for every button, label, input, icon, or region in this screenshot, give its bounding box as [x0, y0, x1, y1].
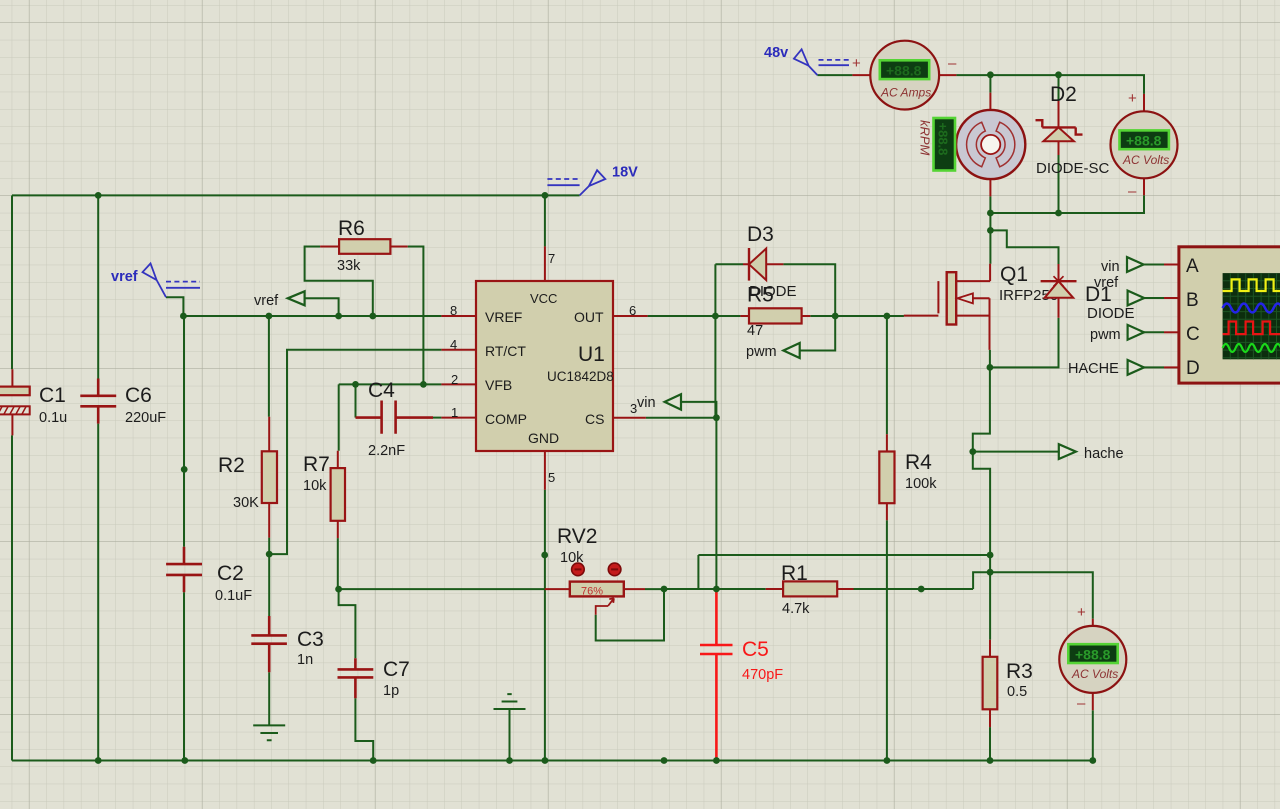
wire Q1 source column with hache jog — [973, 350, 990, 572]
resistor R3 — [983, 640, 1033, 727]
svg-text:R3: R3 — [1006, 660, 1033, 683]
net label vin (scope A) — [1101, 257, 1179, 275]
svg-text:vref: vref — [254, 293, 279, 309]
wire ground symbol stem mid — [509, 709, 511, 761]
svg-text:DIODE-SC: DIODE-SC — [1036, 160, 1110, 177]
svg-text:33k: 33k — [337, 258, 361, 274]
RPM display kRPM — [918, 118, 956, 171]
svg-text:–: – — [1077, 695, 1086, 712]
svg-text:30K: 30K — [233, 495, 259, 511]
wire mid row y555 — [698, 555, 990, 589]
svg-text:C1: C1 — [39, 384, 66, 407]
svg-text:C7: C7 — [383, 658, 410, 681]
wire drain link from motor node — [990, 230, 1058, 264]
ground symbol (under C3) — [253, 725, 285, 740]
svg-text:Q1: Q1 — [1000, 263, 1028, 286]
svg-text:VREF: VREF — [485, 309, 522, 325]
svg-text:0.5: 0.5 — [1007, 684, 1027, 700]
net label vref (scope B) — [1094, 275, 1179, 305]
svg-text:1p: 1p — [383, 683, 399, 699]
svg-text:2: 2 — [451, 372, 458, 387]
svg-text:R4: R4 — [905, 451, 932, 474]
capacitor C2 — [166, 547, 252, 604]
wire voltmeter2 bottom — [1092, 710, 1094, 760]
resistor R2 — [218, 417, 277, 538]
power flag vref — [111, 264, 200, 298]
wire R7 node to C7 — [339, 589, 356, 658]
wire vref rail to pin 8 — [183, 315, 441, 317]
ammeter AC Amps — [852, 41, 957, 110]
svg-text:470pF: 470pF — [742, 667, 783, 683]
wire C4 left riser — [355, 384, 357, 417]
wire RV2 row from R7 node — [339, 588, 545, 590]
svg-text:C6: C6 — [125, 384, 152, 407]
svg-text:+88.8: +88.8 — [1126, 133, 1162, 149]
svg-text:DIODE: DIODE — [749, 283, 797, 300]
svg-text:kRPM: kRPM — [918, 120, 933, 156]
svg-text:100k: 100k — [905, 476, 937, 492]
ground symbol (mid, flipped) — [494, 694, 526, 709]
wire motor bottom row — [990, 195, 1144, 230]
svg-text:COMP: COMP — [485, 411, 527, 427]
svg-text:DIODE: DIODE — [1087, 305, 1135, 322]
svg-text:–: – — [948, 55, 957, 72]
wire RV2 wiper return — [596, 589, 664, 641]
wire CS pin3 row — [646, 417, 717, 419]
wire 18V top rail — [12, 194, 580, 196]
wire gate stub — [887, 315, 904, 317]
svg-text:vref: vref — [111, 269, 138, 285]
svg-text:AC Volts: AC Volts — [1071, 667, 1118, 681]
svg-text:4: 4 — [450, 337, 457, 352]
wire D3 right return — [783, 264, 835, 316]
svg-text:5: 5 — [548, 470, 555, 485]
net label pwm (scope C) — [1090, 325, 1179, 343]
svg-text:hache: hache — [1084, 446, 1124, 462]
wire OUT node down to vin node — [714, 316, 716, 418]
resistor R1 — [766, 562, 854, 617]
svg-text:R6: R6 — [338, 217, 365, 240]
svg-text:47: 47 — [747, 323, 763, 339]
svg-text:18V: 18V — [612, 165, 638, 181]
wire R1 row — [664, 588, 973, 590]
svg-text:2.2nF: 2.2nF — [368, 443, 405, 459]
svg-text:10k: 10k — [303, 478, 327, 494]
capacitor C3 — [251, 616, 324, 672]
wire RT/CT pin4 run to R2/C3 node — [269, 350, 441, 554]
svg-text:C: C — [1186, 324, 1200, 345]
svg-text:R7: R7 — [303, 453, 330, 476]
oscilloscope — [1179, 247, 1280, 383]
wire GND pin5 column — [544, 490, 546, 761]
net label hache (arrow) — [1059, 444, 1124, 462]
svg-text:4.7k: 4.7k — [782, 601, 810, 617]
resistor R6 — [320, 217, 408, 274]
svg-text:0.1u: 0.1u — [39, 410, 67, 426]
svg-text:220uF: 220uF — [125, 410, 166, 426]
svg-text:vin: vin — [637, 395, 656, 411]
wire vin node down to R1 — [715, 418, 717, 589]
svg-text:GND: GND — [528, 430, 559, 446]
svg-text:vin: vin — [1101, 259, 1120, 275]
voltmeter AC Volts (bottom) — [1059, 604, 1126, 712]
svg-text:+88.8: +88.8 — [886, 63, 922, 79]
svg-text:RV2: RV2 — [557, 525, 597, 548]
wire vref flag stub — [166, 297, 183, 316]
transistor Q1 IRFP250 — [904, 263, 1058, 350]
svg-text:D3: D3 — [747, 223, 774, 246]
wire ground bottom rail — [12, 760, 1093, 762]
svg-text:+88.8: +88.8 — [1075, 646, 1111, 662]
svg-text:76%: 76% — [581, 586, 603, 598]
svg-text:pwm: pwm — [746, 344, 777, 360]
wire R2 bottom to C3 node — [268, 538, 270, 555]
svg-text:+: + — [1077, 604, 1086, 621]
svg-text:8: 8 — [450, 303, 457, 318]
svg-text:R1: R1 — [781, 562, 808, 585]
wire left edge column (C1 branch) — [11, 195, 13, 760]
wire R6 right to VFB — [408, 247, 424, 385]
wire VFB pin2 row — [339, 384, 442, 450]
svg-text:VCC: VCC — [530, 291, 557, 306]
svg-text:10k: 10k — [560, 550, 584, 566]
wire D1 anode to source node — [990, 318, 1059, 368]
net label vref (arrow) — [254, 291, 305, 309]
resistor R4 — [879, 434, 937, 520]
svg-text:C3: C3 — [297, 628, 324, 651]
svg-text:C4: C4 — [368, 379, 395, 402]
net label pwm (arrow) — [746, 343, 800, 360]
svg-text:AC Amps: AC Amps — [880, 86, 931, 100]
svg-text:U1: U1 — [578, 343, 605, 366]
wire hache tap — [973, 451, 1059, 453]
wire C3 column — [268, 554, 270, 725]
svg-text:–: – — [1128, 183, 1137, 200]
wire R3 bottom — [989, 727, 991, 760]
capacitor C5 (highlighted red) — [700, 589, 783, 761]
wire C6 column — [97, 195, 99, 760]
waveform A yellow — [1223, 279, 1280, 291]
resistor R5 — [740, 284, 810, 339]
waveform D green — [1223, 344, 1280, 352]
net label HACHE (scope D) — [1068, 360, 1179, 377]
svg-text:6: 6 — [629, 303, 636, 318]
svg-text:HACHE: HACHE — [1068, 361, 1119, 377]
wire C4 right gap — [433, 417, 441, 419]
svg-text:1: 1 — [451, 405, 458, 420]
diode D1 — [1041, 264, 1135, 322]
svg-text:R2: R2 — [218, 454, 245, 477]
wire D2 bottom stub — [1058, 155, 1060, 213]
wire RV2 right lead green gap — [645, 588, 664, 590]
wire VCC pin7 drop — [544, 195, 546, 246]
svg-text:RT/CT: RT/CT — [485, 343, 526, 359]
svg-text:OUT: OUT — [574, 309, 604, 325]
wire drain drop — [989, 230, 991, 263]
potentiometer RV2 — [545, 525, 645, 615]
svg-text:0.1uF: 0.1uF — [215, 588, 252, 604]
motor — [956, 93, 1025, 197]
svg-text:+: + — [852, 55, 861, 72]
svg-text:AC Volts: AC Volts — [1122, 153, 1169, 167]
wire R3 top — [989, 572, 991, 640]
capacitor C1 (polarized) — [0, 369, 67, 435]
voltmeter AC Volts (top) — [1111, 90, 1178, 200]
svg-text:A: A — [1186, 256, 1199, 277]
wire D3 left drop — [715, 264, 743, 316]
capacitor C6 — [80, 379, 166, 427]
wire to voltmeter plus — [990, 572, 1093, 619]
wire D2 top stub — [1058, 75, 1060, 101]
svg-text:VFB: VFB — [485, 377, 512, 393]
svg-text:D2: D2 — [1050, 83, 1077, 106]
diode D2 DIODE-SC — [1036, 83, 1110, 177]
wire motor top stub — [989, 75, 991, 93]
wire R1 right jog up — [973, 572, 990, 589]
svg-text:C2: C2 — [217, 562, 244, 585]
wire OUT pin6 row — [648, 315, 904, 317]
wire R7 bottom — [337, 538, 339, 589]
svg-text:D: D — [1186, 358, 1200, 379]
wire 48v feed — [817, 74, 852, 76]
svg-text:1n: 1n — [297, 652, 313, 668]
wire vin arrow stub — [681, 402, 716, 418]
power flag 18V — [547, 165, 638, 196]
svg-text:vref: vref — [1094, 275, 1119, 291]
wire R2 top — [268, 316, 270, 417]
wire pwm label return — [800, 316, 836, 351]
resistor R7 — [303, 451, 345, 538]
capacitor C7 — [338, 658, 410, 699]
svg-text:CS: CS — [585, 411, 604, 427]
wire R4 column — [886, 316, 888, 761]
capacitor C4 — [356, 379, 434, 459]
power flag 48v — [764, 45, 861, 75]
wire meter amps to motor top — [956, 75, 1144, 94]
svg-text:C5: C5 — [742, 638, 769, 661]
svg-text:48v: 48v — [764, 45, 788, 61]
svg-text:+: + — [1128, 90, 1137, 107]
wire C2 column — [182, 316, 185, 761]
wire vref label arrow stub — [305, 298, 339, 316]
svg-text:B: B — [1186, 290, 1199, 311]
waveform C red — [1223, 322, 1280, 335]
net label vin (arrow) — [637, 394, 681, 411]
svg-text:+88.8: +88.8 — [936, 123, 951, 156]
waveform B blue — [1223, 304, 1280, 313]
svg-text:pwm: pwm — [1090, 327, 1121, 343]
diode D3 — [743, 223, 797, 300]
wire C7 bottom jog to rail — [355, 698, 373, 760]
svg-text:UC1842D8: UC1842D8 — [547, 369, 614, 384]
wire R6 left return — [305, 247, 373, 317]
ic U1 UC1842D8 — [441, 246, 647, 489]
svg-text:7: 7 — [548, 251, 555, 266]
